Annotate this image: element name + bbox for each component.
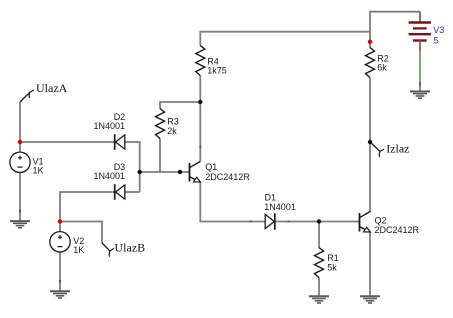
wire R4 bottom to node — [199, 76, 201, 102]
resistor R3 2k — [156, 109, 179, 139]
wire node to Q1 collector — [199, 102, 201, 161]
wire R1 bottom to ground — [318, 278, 320, 297]
wire V1 bottom to ground — [19, 172, 21, 221]
svg-text:1K: 1K — [73, 245, 84, 255]
svg-text:1k75: 1k75 — [207, 66, 227, 76]
wire R3 top horizontal — [160, 102, 200, 109]
wire R1 top — [318, 222, 320, 248]
diode D3 1N4001 — [94, 162, 126, 200]
wire UlazA to input node — [19, 102, 21, 142]
transistor Q1 2DC2412R — [190, 161, 251, 182]
wire R2 top stub — [369, 42, 371, 48]
voltage source V2 1K — [50, 232, 84, 256]
wire D1 cathode to Q2 base — [275, 221, 360, 223]
resistor R2 6k — [366, 48, 389, 78]
ground below Q2 emitter — [360, 296, 380, 303]
svg-text:UlazA: UlazA — [36, 81, 68, 95]
diode D2 1N4001 — [94, 112, 126, 150]
svg-text:5: 5 — [434, 36, 439, 46]
wire Q2 emitter to ground — [369, 232, 371, 296]
ground below battery V3 — [410, 92, 430, 99]
wire D3 cathode to corner — [60, 192, 114, 222]
node junction diode join base — [138, 170, 142, 174]
wire V2 bottom to ground — [59, 252, 61, 291]
svg-text:Izlaz: Izlaz — [386, 141, 409, 155]
wire V1 top — [19, 142, 21, 152]
svg-text:2k: 2k — [167, 126, 177, 136]
node UlazB input tag — [102, 241, 145, 257]
diode D1 1N4001 — [264, 193, 296, 230]
wire R4 top rail — [200, 32, 370, 46]
ground below R1 — [309, 296, 329, 303]
svg-text:1N4001: 1N4001 — [94, 171, 126, 181]
wire joint tick V1 ground wire — [19, 210, 21, 213]
wire joint tick battery ground wire — [419, 83, 421, 86]
wire D2 anode to vertical join — [125, 142, 140, 192]
node red R2 top — [368, 40, 372, 44]
wire R3 bottom — [159, 139, 161, 172]
svg-text:2DC2412R: 2DC2412R — [375, 225, 420, 235]
resistor R1 5k — [315, 248, 339, 278]
svg-text:5k: 5k — [327, 263, 337, 273]
voltage source V1 1K — [10, 152, 44, 176]
svg-text:1K: 1K — [33, 166, 44, 176]
node UlazA input tag — [20, 81, 68, 102]
svg-text:Q2: Q2 — [375, 216, 387, 226]
wire joint tick V2 ground wire — [59, 280, 61, 283]
node junction base wire — [178, 170, 182, 174]
wire base node to Q1 base — [140, 171, 190, 173]
svg-text:UlazB: UlazB — [115, 241, 146, 255]
node red V1/input A — [18, 140, 22, 144]
ground below V1 — [10, 221, 30, 228]
node red V2/input B — [58, 219, 62, 223]
svg-text:Q1: Q1 — [205, 162, 217, 172]
svg-text:1N4001: 1N4001 — [264, 202, 296, 212]
wire R2 bottom to Q2 collector — [369, 78, 371, 213]
wire joint tick Q1 emitter rail — [249, 221, 252, 223]
battery V3 5 — [409, 12, 445, 51]
resistor R4 1k75 — [196, 46, 227, 76]
wire joint tick D1 cathode rail — [287, 221, 290, 223]
svg-text:V3: V3 — [433, 25, 444, 35]
wire joint tick Q1 collector feed — [199, 146, 201, 149]
transistor Q2 2DC2412R — [360, 211, 420, 235]
ground below V2 — [50, 291, 70, 298]
wire input A horizontal to D2 — [20, 141, 114, 143]
wire battery green segment — [419, 51, 421, 82]
node junction Izlaz — [368, 140, 372, 144]
wire top rail battery to node — [370, 12, 420, 42]
wire battery ground gray segment — [419, 82, 421, 91]
wire V2 top — [59, 222, 61, 232]
node junction R1/D1 — [317, 219, 321, 223]
svg-text:2DC2412R: 2DC2412R — [205, 172, 250, 182]
svg-text:6k: 6k — [377, 63, 387, 73]
wire UlazB branch — [60, 222, 102, 244]
wire Q1 emitter to D1 — [200, 182, 265, 222]
wire D3 anode stub — [125, 191, 140, 193]
node Izlaz output tag — [370, 141, 410, 157]
svg-text:1N4001: 1N4001 — [94, 121, 126, 131]
node junction R4/R3/Q1 collector — [198, 100, 202, 104]
